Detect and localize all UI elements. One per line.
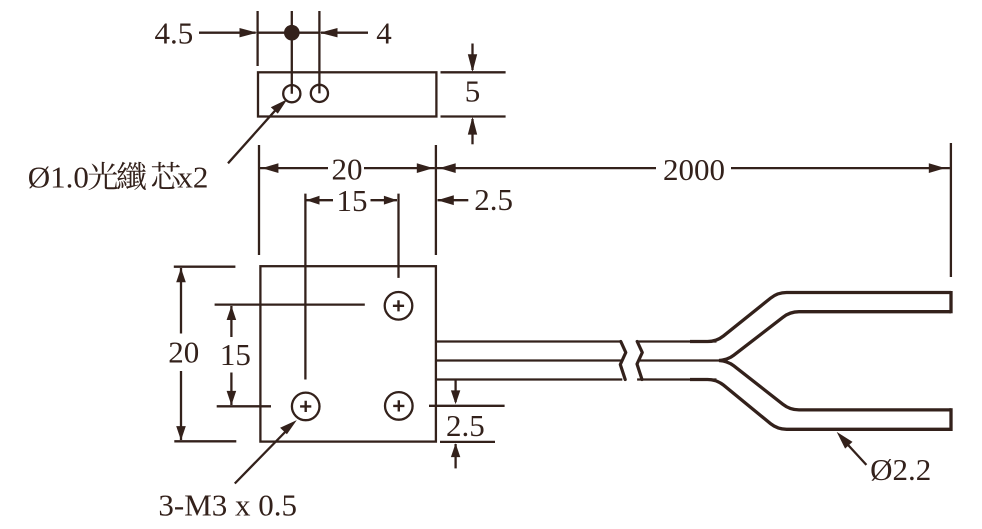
svg-text:20: 20 bbox=[332, 151, 363, 186]
arrow down (5 dim top) bbox=[468, 54, 477, 72]
20 left dim line segments bbox=[180, 268, 182, 334]
dot on 4.5 dim bbox=[284, 25, 300, 41]
dimension line 2.5 top bbox=[438, 199, 469, 201]
dimension line 2000 bbox=[437, 167, 656, 169]
svg-text:20: 20 bbox=[168, 335, 199, 370]
arrow down at 181,440.8 (20 left) bbox=[176, 426, 186, 440]
dimension line 4 bbox=[292, 32, 320, 34]
arrow down at 231.4,405.6 (15 left) bbox=[227, 391, 237, 405]
hole bottom-left bbox=[292, 393, 320, 421]
arrow up (5 dim bottom) bbox=[468, 117, 477, 135]
Y split cap top bbox=[949, 291, 952, 313]
15 left dim line segments bbox=[230, 306, 232, 337]
break zigzag right bbox=[637, 342, 642, 380]
5 dim extension bottom bbox=[441, 115, 506, 117]
svg-text:4.5: 4.5 bbox=[155, 16, 194, 51]
extension line through core 2 bbox=[318, 11, 320, 93]
arrow right at x=257.6 (4.5 dim) bbox=[240, 28, 258, 37]
arrow down at 455.6,404.9 (2.5 bottom) bbox=[451, 390, 460, 404]
svg-text:Ø2.2: Ø2.2 bbox=[870, 452, 931, 487]
svg-text:15: 15 bbox=[220, 337, 251, 372]
arrow right at 398.2 (15 top) bbox=[384, 196, 397, 205]
top view rectangle bbox=[258, 72, 436, 116]
2.5 bottom ext line 2 bbox=[440, 441, 495, 443]
extension line G (bottom hole row left) bbox=[217, 405, 271, 407]
extension line F (top-right hole row) bbox=[215, 303, 365, 305]
arrow right at 435.9 (20 top) bbox=[417, 163, 434, 173]
leader cable diameter bbox=[837, 432, 867, 465]
2.5 bottom ext line 1 bbox=[429, 405, 505, 407]
plus in hole bottom-left bbox=[300, 401, 311, 412]
svg-text:Ø1.0: Ø1.0 bbox=[28, 160, 89, 195]
svg-text:5: 5 bbox=[465, 74, 481, 109]
fiber core circle 2 bbox=[311, 85, 328, 102]
extension line left of 4.5 dim bbox=[256, 11, 258, 66]
Y split upper outer bbox=[690, 293, 951, 342]
CJK glyphs 光纖芯 drawn as paths bbox=[88, 162, 179, 190]
20 left dim extension top bbox=[174, 266, 236, 268]
dimension line 20 top bbox=[260, 167, 328, 169]
arrow right at 950.9 (2000) bbox=[929, 163, 946, 173]
arrow up at 455.6,442.6 (2.5 bottom) bbox=[451, 443, 460, 457]
svg-text:3-M3 x 0.5: 3-M3 x 0.5 bbox=[158, 488, 297, 523]
svg-text:2000: 2000 bbox=[663, 152, 725, 187]
extension line B (x=435.9) bbox=[435, 145, 437, 255]
5 dim arrow stems bbox=[471, 44, 473, 71]
svg-text:15: 15 bbox=[337, 183, 368, 218]
arrow left at x=319.4 (4 dim) bbox=[320, 28, 338, 37]
cable straight lines left of break bbox=[436, 340, 621, 342]
extension line through core 1 bbox=[291, 11, 293, 94]
svg-text:2.5: 2.5 bbox=[446, 408, 485, 443]
leader M3 label bbox=[235, 420, 297, 483]
5 dim extension top bbox=[441, 71, 506, 73]
fiber core circle 1 bbox=[283, 85, 300, 102]
2.5 bottom arrow stems bbox=[454, 380, 456, 402]
arrow left at 305.4 (15 top) bbox=[306, 196, 319, 205]
hole bottom-right bbox=[385, 392, 413, 420]
Y split upper inner bbox=[719, 312, 951, 361]
extension line A (left, from top view to square) bbox=[258, 145, 260, 255]
break zigzag left bbox=[620, 342, 626, 380]
arrow up at 231.4,305.4 (15 left) bbox=[227, 306, 237, 320]
svg-text:2.5: 2.5 bbox=[474, 182, 513, 217]
Y split lower outer bbox=[690, 380, 951, 430]
Y split lower inner bbox=[719, 361, 951, 410]
arrow left at 435.9 (2.5 top) bbox=[437, 195, 454, 205]
arrow up at 181,267.5 (20 left) bbox=[176, 268, 186, 282]
extension line D (to bottom-left hole) bbox=[304, 194, 306, 380]
20 left dim extension bottom bbox=[174, 440, 236, 442]
extension line C (right, 2000) bbox=[950, 143, 952, 277]
cable lines right of break bbox=[637, 340, 716, 342]
leader fiber label bbox=[228, 99, 287, 163]
svg-text:4: 4 bbox=[376, 16, 392, 51]
plus in hole top-right bbox=[300, 300, 404, 412]
arrow left at 435.9 (2000) bbox=[439, 163, 456, 173]
extension line E (to top-right hole) bbox=[397, 194, 399, 278]
front square bbox=[260, 266, 436, 441]
svg-text:x2: x2 bbox=[177, 160, 208, 195]
hole top-right bbox=[385, 292, 413, 320]
Y split cap bottom bbox=[949, 408, 952, 431]
arrow left at 259 (20 top) bbox=[262, 163, 279, 173]
dimension line 15 top bbox=[307, 199, 334, 201]
plus in hole bottom-right bbox=[393, 400, 404, 411]
dimension line 4.5 bbox=[199, 32, 256, 34]
